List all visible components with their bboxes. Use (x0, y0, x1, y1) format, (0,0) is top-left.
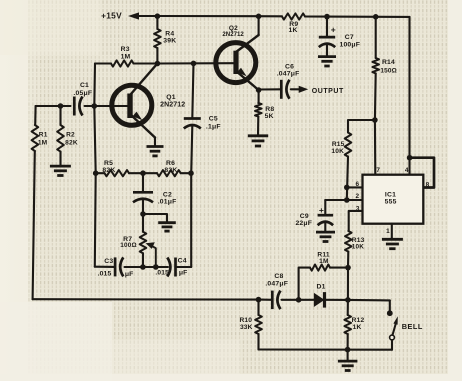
capacitor C4 (167, 258, 175, 277)
wire right vertical to bottom (190, 173, 192, 267)
junction R3/Q1 base (92, 103, 98, 109)
wire ground stub (347, 350, 349, 361)
svg-text:555: 555 (385, 199, 397, 206)
label R4 value (163, 30, 176, 44)
svg-text:OUTPUT: OUTPUT (312, 88, 344, 95)
transistor Q1 (112, 64, 158, 138)
wiper arrow of R7 (146, 242, 156, 267)
wire to bell switch (348, 300, 390, 312)
svg-text:82K: 82K (102, 167, 115, 174)
svg-text:C1: C1 (80, 82, 89, 89)
resistor R6 (143, 170, 191, 176)
wire emitter to C6 (259, 88, 282, 90)
junction pin6 (344, 185, 350, 191)
ground below C7 (318, 57, 336, 66)
wire base left (36, 105, 71, 107)
label Q1 (160, 94, 185, 108)
svg-text:1M: 1M (121, 54, 131, 61)
junction C8/D1/R11 (296, 297, 302, 303)
svg-text:.015: .015 (155, 269, 169, 276)
resistor R2 (57, 106, 64, 166)
svg-text:+: + (331, 25, 336, 35)
wire C6 to output arrow (291, 86, 308, 93)
svg-text:C8: C8 (274, 273, 283, 280)
svg-text:2: 2 (356, 193, 360, 200)
wire bottom row mid (125, 266, 169, 268)
junction R10/C8 (256, 297, 262, 303)
label BELL (402, 322, 423, 331)
resistor R3 (95, 60, 157, 66)
svg-text:7: 7 (376, 167, 380, 174)
diode D1 (314, 292, 325, 308)
svg-text:5K: 5K (265, 113, 274, 120)
capacitor C9 (318, 215, 334, 225)
switch contact bottom (390, 335, 395, 340)
wire C5 branch upper (192, 63, 193, 118)
label R7 value (120, 236, 137, 249)
wire R13 to diode node (347, 268, 349, 300)
svg-text:1M: 1M (38, 139, 48, 146)
wire Q2 collector (258, 16, 260, 35)
svg-text:150Ω: 150Ω (380, 68, 397, 75)
resistor R4 (154, 16, 161, 64)
wire pin 2 (325, 199, 362, 201)
resistor R1 (32, 106, 39, 299)
svg-text:R5: R5 (104, 160, 113, 167)
label +15V supply (101, 11, 122, 21)
svg-text:33K: 33K (240, 324, 253, 331)
wire switch to bottom (391, 340, 393, 350)
label pin 4 (405, 167, 409, 174)
wire node A to Q2 base (157, 62, 233, 64)
junction pin4/pin8 branch (407, 155, 413, 161)
label R13 value (352, 237, 365, 250)
label C7 value (339, 34, 360, 48)
wire pin 3 (349, 211, 363, 231)
label R12 value (352, 317, 365, 331)
capacitor C8 (272, 291, 280, 310)
label pin 8 (426, 182, 430, 189)
op-amp/IC U1 555 box (363, 175, 424, 224)
svg-text:C3: C3 (104, 258, 113, 265)
svg-text:C7: C7 (345, 34, 354, 41)
svg-text:C5: C5 (209, 116, 218, 123)
svg-text:R3: R3 (121, 46, 130, 53)
wire +15V rail (157, 15, 282, 17)
svg-text:1K: 1K (353, 324, 362, 331)
wire C5 branch lower (191, 126, 192, 173)
svg-text:10K: 10K (352, 243, 365, 250)
label R15 value (331, 141, 344, 155)
svg-text:R4: R4 (165, 30, 174, 37)
ground below R8 (248, 136, 268, 146)
resistor R14 (372, 17, 379, 120)
wire to C8 (259, 299, 273, 301)
label D1 (317, 283, 326, 290)
svg-text:39K: 39K (163, 37, 176, 44)
junction R2 top (58, 103, 64, 109)
resistor R7 (140, 214, 147, 267)
wire Q2 emitter node (258, 90, 260, 103)
svg-text:R1: R1 (39, 132, 48, 139)
svg-text:82K: 82K (65, 139, 78, 146)
ground bottom (338, 361, 358, 370)
label OUTPUT (312, 88, 344, 95)
svg-text:+: + (319, 205, 324, 215)
wire C7 top (326, 17, 328, 37)
svg-text:1M: 1M (319, 258, 329, 265)
svg-text:2N2712: 2N2712 (222, 31, 244, 38)
svg-text:.047μF: .047μF (265, 281, 288, 288)
svg-text:82K: 82K (164, 167, 177, 174)
wire pin4 supply (408, 17, 410, 175)
label R8 value (265, 106, 275, 120)
wire pin2 to C9 (324, 200, 326, 215)
capacitor C1 (74, 97, 82, 116)
label C2 value (158, 192, 177, 206)
label C9 plus (319, 205, 324, 215)
svg-text:2N2712: 2N2712 (160, 101, 185, 108)
svg-text:R6: R6 (166, 160, 175, 167)
resistor R5 (96, 170, 143, 176)
svg-text:10K: 10K (331, 148, 344, 155)
ground below C2 (158, 223, 176, 231)
svg-text:C2: C2 (163, 192, 172, 199)
junction R7 bottom (140, 264, 146, 270)
junction rail/Q2 collector (256, 13, 262, 19)
label pin 1 (386, 228, 390, 235)
junction base wire / C5 branch (191, 61, 197, 67)
label R11 value (317, 252, 329, 265)
wire bottom row right (176, 266, 192, 268)
wire long feedback bottom (33, 298, 259, 300)
arrow on +15V rail (128, 12, 157, 19)
svg-text:μF: μF (179, 269, 188, 276)
svg-text:.047μF: .047μF (277, 71, 300, 78)
label IC1 555 (385, 191, 397, 205)
svg-text:3: 3 (356, 206, 360, 213)
switch lever (393, 316, 398, 335)
label pin 6 (356, 181, 360, 188)
svg-text:Q1: Q1 (166, 94, 175, 101)
svg-text:.1μF: .1μF (206, 123, 221, 130)
svg-text:8: 8 (426, 182, 430, 189)
label C1 value (73, 82, 92, 97)
label Q2 (222, 25, 244, 38)
svg-text:μF: μF (125, 271, 134, 278)
label pin 7 (376, 167, 380, 174)
wire R15 branch (348, 120, 375, 133)
wire C7 bottom (326, 45, 328, 57)
transistor Q2 (216, 35, 259, 90)
wire C8 to diode (282, 299, 314, 301)
svg-text:.015: .015 (97, 270, 111, 277)
junction bottom ground (345, 347, 351, 353)
label C7 plus (331, 25, 336, 35)
wire diode to node (325, 299, 348, 301)
wire Q1 base (85, 105, 128, 107)
wire left vertical to R5 (94, 106, 95, 173)
resistor R13 (345, 231, 352, 268)
junction rail/R4 (155, 13, 161, 19)
wire bottom return (259, 348, 393, 350)
svg-text:1K: 1K (289, 27, 298, 34)
label pin 3 (356, 206, 360, 213)
ground below Q1 emitter (147, 147, 164, 156)
capacitor C3 (115, 257, 123, 276)
label C8 value (265, 273, 288, 288)
wire C2 top (142, 173, 144, 192)
wire C9 bottom (324, 223, 326, 232)
wire bottom row left (95, 266, 115, 268)
wire pin 8 jog (410, 158, 434, 188)
svg-text:+15V: +15V (101, 11, 122, 21)
wire feedback vertical (93, 64, 96, 107)
wire pin 7 (374, 120, 376, 175)
junction Q2 emitter (256, 87, 262, 93)
wire pin 6 (347, 186, 363, 188)
svg-text:4: 4 (405, 167, 409, 174)
junction R7 wiper bottom (153, 264, 159, 270)
junction pin2 (344, 197, 350, 203)
lighter page margins (0, 0, 42, 381)
label C6 value (277, 64, 300, 78)
label R10 value (239, 317, 252, 331)
junction R5 left (93, 170, 99, 176)
label R3 value (121, 46, 131, 61)
label pin 2 (356, 193, 360, 200)
label R2 value (65, 132, 78, 147)
label R6 value (164, 160, 177, 174)
wire Q1 emitter to ground (154, 138, 156, 147)
svg-text:R8: R8 (265, 106, 274, 113)
svg-text:R2: R2 (66, 132, 75, 139)
ground below R2 (50, 166, 71, 175)
svg-text:C4: C4 (178, 258, 187, 265)
resistor R9 (282, 13, 327, 19)
capacitor C7 (319, 37, 335, 47)
wire R11 left leg (299, 268, 310, 300)
label R9 value (289, 21, 299, 34)
svg-text:22μF: 22μF (295, 220, 312, 227)
wire left vertical lower (94, 173, 97, 267)
svg-text:C9: C9 (300, 213, 309, 220)
junction rail/C7 (324, 14, 330, 20)
svg-text:100μF: 100μF (339, 41, 360, 48)
svg-text:R15: R15 (332, 141, 345, 148)
switch contact top (387, 310, 393, 316)
junction R11/R13 (345, 265, 351, 271)
wire C2 bottom (142, 200, 144, 214)
label C5 value (206, 116, 221, 131)
capacitor C5 (184, 119, 201, 129)
svg-text:6: 6 (356, 181, 360, 188)
label C9 value (295, 213, 312, 227)
svg-text:IC1: IC1 (385, 191, 396, 198)
svg-text:.01μF: .01μF (158, 199, 177, 206)
svg-text:D1: D1 (317, 283, 326, 290)
ground below C9 (316, 232, 335, 241)
node A junction R3/R4/Q1 collector (155, 61, 161, 67)
junction rail/R14 (373, 14, 379, 20)
resistor R15 (345, 133, 352, 201)
junction D1/R12/R13/switch (345, 297, 351, 303)
resistor R11 (310, 265, 348, 271)
resistor R10 (255, 300, 262, 350)
svg-text:BELL: BELL (402, 322, 423, 331)
junction R14/R15/pin7 (372, 117, 378, 123)
svg-text:R14: R14 (382, 59, 395, 66)
label C3 value (97, 258, 133, 278)
capacitor C6 (281, 80, 289, 99)
junction R5/R6/C2 (140, 170, 146, 176)
wire to C2 ground (143, 214, 167, 223)
svg-text:100Ω: 100Ω (120, 242, 137, 249)
junction C2/R7/ground branch (140, 211, 146, 217)
svg-text:1: 1 (386, 228, 390, 235)
capacitor C2 (133, 192, 153, 202)
label R5 value (102, 160, 115, 174)
label R14 value (380, 59, 397, 75)
label R1 value (38, 132, 48, 147)
svg-text:.05μF: .05μF (73, 90, 92, 97)
wire pin 1 (391, 224, 393, 240)
label C4 value (155, 258, 187, 277)
junction R6 right / C5 (188, 170, 194, 176)
resistor R12 (344, 300, 351, 350)
wire rail right end (327, 16, 410, 18)
ground below pin 1 (382, 239, 403, 248)
resistor R8 (255, 103, 262, 136)
